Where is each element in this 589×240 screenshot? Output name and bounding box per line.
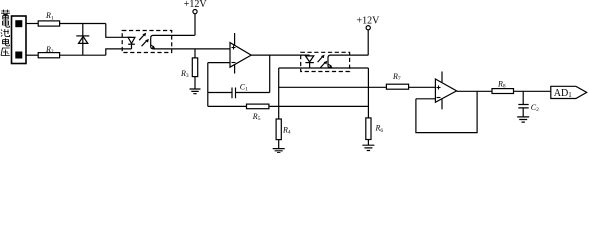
terminal (top square) <box>16 21 22 27</box>
terminal (bottom square) <box>16 52 22 58</box>
svg-text:+12V: +12V <box>357 16 381 27</box>
wire op-amp1 output <box>251 54 309 56</box>
wire bottom feedback rail <box>208 105 369 107</box>
wire corner down to opto1 anode <box>106 24 132 38</box>
resistor R8 <box>492 89 514 94</box>
label 蓄 (hand-drawn strokes) <box>1 10 10 19</box>
opto2 light arrow a <box>318 57 323 63</box>
opto2 LED <box>305 56 313 62</box>
label 电 (hand-drawn strokes) <box>3 38 10 46</box>
op-amp U4 <box>435 79 456 102</box>
output flag AD1 <box>551 86 587 98</box>
diode D1 <box>82 24 84 56</box>
label 池 (hand-drawn strokes) <box>1 29 10 37</box>
wire C1 branch left <box>208 92 232 94</box>
svg-text:+12V: +12V <box>184 0 208 10</box>
opto1 phototransistor <box>151 35 230 49</box>
ground (under R3) <box>190 89 201 94</box>
opto1 LED <box>128 37 135 43</box>
ground (under C2) <box>517 117 529 122</box>
wire emitter/cathode rail <box>279 67 369 69</box>
resistor R6 <box>366 118 371 140</box>
ground (under R4) <box>273 149 285 153</box>
wire C1 to output node <box>236 92 270 94</box>
wire box to R2 <box>26 54 38 56</box>
opto1 light arrow b <box>142 41 147 47</box>
opto1 light arrow a <box>139 35 144 41</box>
op-amp U2 <box>230 43 251 68</box>
resistor R7 <box>386 84 408 89</box>
battery source box <box>12 16 27 64</box>
wire corner up to opto1 cathode <box>106 49 132 55</box>
wire op-amp2 output <box>457 90 492 92</box>
optocoupler U3 dashed box <box>301 52 350 71</box>
wire V2 vertical <box>278 68 280 119</box>
resistor R5 <box>247 104 269 109</box>
resistor R4 <box>276 119 281 140</box>
resistor R3 <box>194 49 196 58</box>
wire R8 to AD1 <box>514 90 551 92</box>
wire R1 to corner <box>60 23 106 25</box>
ground (under R6) <box>362 145 374 150</box>
optocoupler U1 dashed box <box>122 31 172 53</box>
wire middle rail to R7 <box>279 86 387 88</box>
opto2 phototransistor <box>328 55 368 68</box>
wire feedback vertical <box>207 63 209 107</box>
opto2 light arrow b <box>320 63 325 69</box>
wire R2 to corner <box>60 54 106 56</box>
wire output junction vertical <box>269 55 271 92</box>
wire inverting input <box>208 62 230 64</box>
label 压 (hand-drawn strokes) <box>1 48 10 56</box>
wire feedback loop op-amp2 <box>416 91 477 132</box>
wire box to R1 <box>26 23 38 25</box>
resistor R2 <box>38 53 59 58</box>
label 电 (hand-drawn strokes) <box>3 20 10 28</box>
resistor R1 <box>38 21 59 26</box>
wire V3 vertical <box>367 68 369 118</box>
wire inverting input op-amp2 <box>416 98 436 100</box>
capacitor C2 <box>522 91 524 104</box>
capacitor C1 <box>232 88 236 99</box>
wire R7 to op-amp2 <box>409 86 436 88</box>
